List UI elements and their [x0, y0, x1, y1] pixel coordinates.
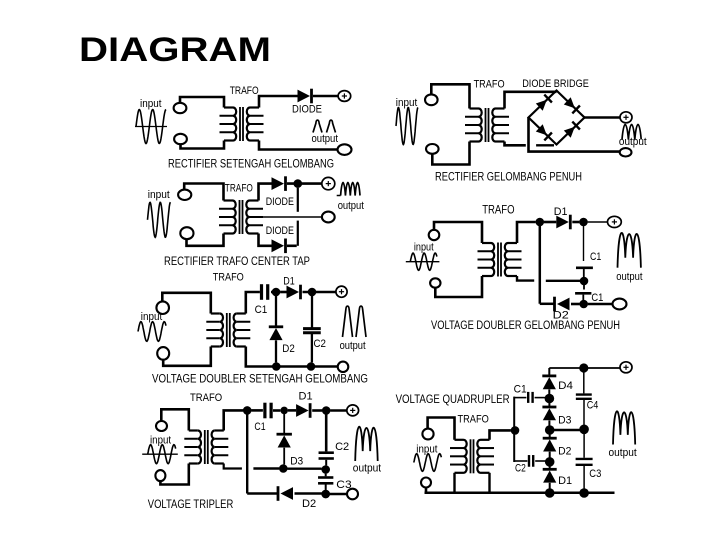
svg-text:output: output	[609, 447, 637, 459]
svg-text:C1: C1	[514, 384, 527, 396]
svg-text:DIODE: DIODE	[266, 196, 294, 208]
svg-text:D1: D1	[558, 475, 572, 487]
svg-text:TRAFO: TRAFO	[482, 203, 514, 217]
svg-text:TRAFO: TRAFO	[458, 414, 490, 426]
svg-text:D3: D3	[290, 455, 303, 467]
svg-text:VOLTAGE DOUBLER SETENGAH GELOM: VOLTAGE DOUBLER SETENGAH GELOMBANG	[152, 373, 368, 385]
svg-text:C4: C4	[587, 399, 599, 411]
svg-text:D2: D2	[282, 343, 295, 355]
svg-text:TRAFO: TRAFO	[190, 392, 223, 404]
svg-text:C1: C1	[255, 304, 268, 316]
svg-text:C2: C2	[515, 463, 526, 475]
svg-text:input: input	[140, 98, 162, 110]
svg-text:C3: C3	[589, 468, 601, 480]
svg-text:D4: D4	[558, 380, 573, 392]
svg-text:VOLTAGE TRIPLER: VOLTAGE TRIPLER	[148, 499, 234, 511]
svg-text:output: output	[338, 200, 364, 212]
svg-text:C1: C1	[254, 421, 265, 433]
svg-text:input: input	[148, 189, 170, 201]
svg-text:D3: D3	[558, 414, 571, 426]
svg-text:output: output	[616, 271, 642, 283]
svg-text:TRAFO: TRAFO	[213, 272, 244, 284]
svg-text:DIODE: DIODE	[292, 104, 322, 116]
svg-text:input: input	[150, 434, 171, 446]
svg-text:RECTIFIER SETENGAH GELOMBANG: RECTIFIER SETENGAH GELOMBANG	[168, 159, 334, 171]
svg-text:DIODE: DIODE	[266, 225, 294, 237]
svg-text:output: output	[619, 136, 647, 148]
svg-text:input: input	[414, 242, 434, 254]
svg-text:VOLTAGE DOUBLER GELOMBANG PENU: VOLTAGE DOUBLER GELOMBANG PENUH	[431, 320, 620, 332]
svg-text:RECTIFIER TRAFO CENTER TAP: RECTIFIER TRAFO CENTER TAP	[164, 256, 310, 268]
svg-text:TRAFO: TRAFO	[474, 79, 505, 91]
svg-text:RECTIFIER GELOMBANG PENUH: RECTIFIER GELOMBANG PENUH	[435, 172, 582, 184]
svg-text:D1: D1	[554, 206, 568, 218]
svg-text:C2: C2	[314, 338, 327, 350]
svg-text:TRAFO: TRAFO	[230, 85, 259, 97]
svg-text:output: output	[353, 463, 381, 475]
svg-text:D1: D1	[299, 390, 313, 402]
svg-text:output: output	[340, 340, 366, 352]
svg-text:D2: D2	[558, 445, 571, 457]
svg-text:C1: C1	[590, 251, 601, 263]
svg-text:DIODE BRIDGE: DIODE BRIDGE	[522, 78, 589, 90]
svg-text:input: input	[416, 444, 437, 456]
svg-text:C2: C2	[335, 441, 349, 453]
svg-text:VOLTAGE QUADRUPLER: VOLTAGE QUADRUPLER	[396, 394, 510, 406]
svg-text:C3: C3	[336, 479, 351, 491]
svg-text:C1: C1	[591, 292, 603, 304]
svg-text:DIAGRAM: DIAGRAM	[79, 31, 271, 69]
svg-text:TRAFO: TRAFO	[225, 183, 253, 195]
svg-text:D2: D2	[302, 498, 316, 510]
svg-text:output: output	[312, 133, 339, 145]
svg-text:D1: D1	[283, 275, 295, 287]
